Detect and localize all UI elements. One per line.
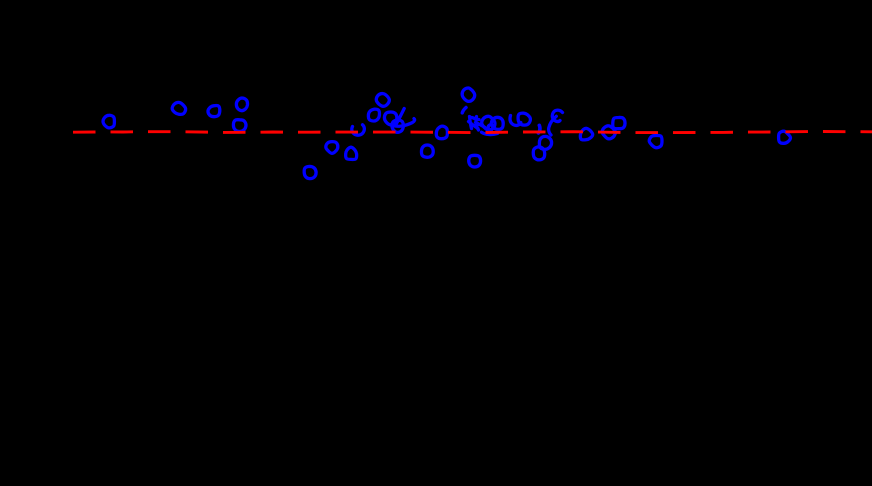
data point 26 (784,137.7) [779, 131, 791, 143]
comma stray [538, 125, 540, 133]
zero residual reference line (red dashed, drawn on top) [73, 132, 872, 133]
data point 25 (656,141) [649, 135, 662, 147]
apostrophe stray stroke [462, 108, 466, 113]
data point 19 (524,119) [518, 113, 530, 125]
data point 3 (214.2,110.9) [208, 106, 220, 117]
data point 21 (539,153.5) [533, 147, 544, 160]
data point 24 (618.5,123) [613, 117, 625, 128]
data point 11 (390.7,117.8) [384, 112, 397, 125]
data point 5 (239.8,125.0) [233, 120, 246, 132]
swoosh stroke over cluster [392, 109, 415, 127]
data point 6 (309.5,172.5) [304, 166, 316, 178]
data point 9 (374,115) [368, 109, 379, 121]
data point 23 (608.5,132) [602, 126, 615, 139]
data point 7 (332,147) [326, 142, 338, 154]
scribble cluster inner loop [488, 125, 492, 130]
data point 10 (383,100) [376, 94, 389, 107]
integral squiggle [549, 110, 563, 135]
data point 12 (397.3,126) [392, 120, 403, 132]
data point 18 (497.5,123.5) [491, 117, 503, 129]
data point 8 (351,154) [346, 147, 357, 159]
data point 20 (545,143) [539, 136, 551, 149]
u-shaped point [510, 116, 521, 126]
data point 16 (474.7,161) [469, 155, 481, 167]
data point 15 (468.5,94.8) [462, 88, 475, 101]
data point 17 (488.5,123) [482, 116, 495, 130]
scribble cluster under-arc [482, 132, 498, 134]
data point 13 (427.3,150.7) [421, 145, 433, 157]
data point 1 (109,121.5) [103, 115, 114, 128]
data point 2 (178.8,108.8) [172, 102, 185, 114]
scribble cluster zigzag [469, 117, 486, 131]
open u circle point [352, 125, 365, 135]
data point 22 (586,134.5) [580, 128, 592, 140]
data point 14 (442,132.5) [436, 126, 447, 139]
data point 4 (241.8,104.8) [236, 98, 247, 111]
